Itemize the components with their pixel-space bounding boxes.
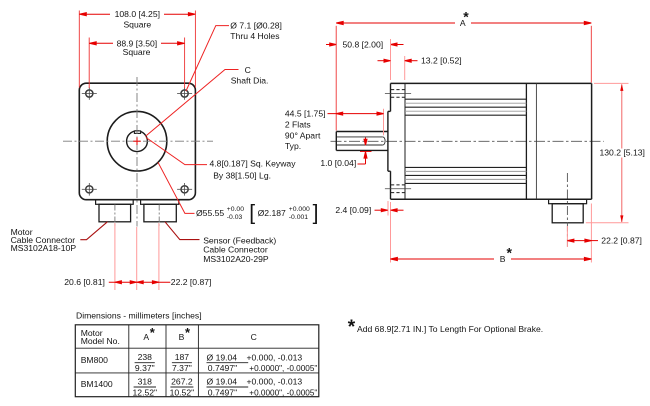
pilot boss (side)	[388, 111, 391, 171]
svg-text:Shaft Dia.: Shaft Dia.	[231, 75, 269, 85]
svg-text:318: 318	[138, 376, 153, 386]
dimension 108.0 line and arrows	[79, 13, 195, 16]
svg-text:+0.0000", -0.0005": +0.0000", -0.0005"	[249, 387, 317, 397]
svg-text:4.8[0.187] Sq. Keyway: 4.8[0.187] Sq. Keyway	[210, 158, 297, 168]
svg-text:*: *	[507, 245, 513, 261]
side view main centerline	[331, 140, 604, 142]
svg-text:MS3102A20-29P: MS3102A20-29P	[203, 254, 269, 264]
svg-text:B: B	[179, 332, 185, 342]
mounting hole bottom-right	[177, 183, 192, 196]
svg-text:Ø 7.1 [Ø0.28]: Ø 7.1 [Ø0.28]	[230, 21, 282, 31]
svg-text:Square: Square	[123, 19, 151, 29]
hole centerline bottom (side)	[385, 188, 411, 190]
rear connector centerline	[566, 173, 568, 247]
hole centerline top (side)	[385, 92, 411, 94]
svg-text:Thru 4 Holes: Thru 4 Holes	[230, 31, 279, 41]
svg-text:C: C	[251, 332, 257, 342]
svg-text:2 Flats: 2 Flats	[285, 120, 311, 130]
svg-text:20.6 [0.81]: 20.6 [0.81]	[64, 277, 105, 287]
pilot dia callout leader	[158, 162, 195, 213]
svg-text:*: *	[348, 317, 356, 338]
svg-text:90° Apart: 90° Apart	[285, 130, 321, 140]
svg-text:B: B	[500, 254, 506, 264]
dimension A extension lines	[336, 26, 591, 131]
svg-text:22.2 [0.87]: 22.2 [0.87]	[171, 277, 212, 287]
svg-text:7.37": 7.37"	[172, 363, 192, 373]
svg-text:13.2 [0.52]: 13.2 [0.52]	[421, 56, 462, 66]
svg-text:0.7497": 0.7497"	[208, 363, 237, 373]
hidden mounting hole bottom (side)	[391, 185, 405, 193]
dimension 44.5 extension line	[383, 109, 385, 136]
svg-text:50.8 [2.00]: 50.8 [2.00]	[343, 40, 384, 50]
dimension A line and arrows	[336, 21, 591, 24]
svg-text:Ø 19.04: Ø 19.04	[207, 376, 238, 386]
svg-text:*: *	[150, 325, 156, 340]
front view vertical centerline	[136, 77, 138, 227]
svg-text:*: *	[185, 325, 191, 340]
side view shaft outline	[336, 132, 388, 151]
dimension 44.5 line and arrows	[328, 112, 384, 115]
svg-text:BM1400: BM1400	[81, 379, 113, 389]
svg-text:187: 187	[175, 352, 190, 362]
motor connector body (left)	[99, 204, 131, 222]
connector centerline left	[114, 205, 116, 226]
flange face extension line	[390, 39, 392, 263]
flange back face	[404, 83, 406, 199]
svg-text:+0.000, -0.013: +0.000, -0.013	[247, 352, 303, 362]
svg-text:2.4 [0.09]: 2.4 [0.09]	[335, 205, 371, 215]
svg-text:12.52": 12.52"	[133, 387, 158, 397]
shaft circle	[127, 131, 148, 152]
svg-text:10.52": 10.52"	[170, 387, 195, 397]
svg-text:108.0 [4.25]: 108.0 [4.25]	[115, 9, 160, 19]
motor connector lip (left)	[96, 200, 134, 205]
connector centerline right	[158, 205, 160, 226]
mounting hole bottom-left	[82, 183, 97, 196]
svg-text:+0.00: +0.00	[227, 206, 244, 213]
svg-text:C: C	[245, 65, 251, 75]
hidden mounting hole top (side)	[391, 90, 405, 98]
svg-text:9.37": 9.37"	[135, 363, 155, 373]
flange front face	[390, 83, 392, 199]
sensor connector body (right)	[144, 204, 176, 222]
dimension 22.2 rear extension line	[566, 226, 568, 247]
svg-text:[: [	[249, 202, 255, 225]
svg-text:Dimensions - millimeters [inch: Dimensions - millimeters [inches]	[76, 310, 202, 320]
sensor connector lip (right)	[141, 200, 179, 205]
motor connector label leader	[80, 222, 107, 240]
svg-text:MS3102A18-10P: MS3102A18-10P	[11, 243, 77, 253]
keyway	[134, 131, 140, 134]
svg-text:Ø2.187: Ø2.187	[258, 208, 286, 218]
dimension 88.9 line and arrows	[89, 42, 184, 45]
sensor connector label leader	[165, 222, 200, 240]
table outer frame	[75, 325, 318, 397]
dimension 2.4 extension line	[387, 201, 389, 216]
shaft dia callout leader	[146, 70, 239, 137]
svg-text:Ø55.55: Ø55.55	[196, 208, 224, 218]
front view horizontal centerline	[63, 140, 213, 142]
svg-text:22.2 [0.87]: 22.2 [0.87]	[601, 236, 642, 246]
keyway callout leader	[146, 138, 207, 165]
rear connector lip (side)	[549, 199, 587, 204]
dimension 130.2 extension lines	[586, 83, 629, 222]
table row lines	[75, 348, 318, 373]
svg-text:]: ]	[313, 202, 319, 225]
dimension B extension line right	[590, 204, 592, 263]
svg-text:Model No.: Model No.	[81, 336, 120, 346]
svg-text:+0.0000", -0.0005": +0.0000", -0.0005"	[249, 363, 317, 373]
fin section end	[525, 83, 527, 199]
svg-text:-0.03: -0.03	[227, 214, 243, 221]
dimension 50.8 line and arrows	[326, 43, 404, 46]
svg-text:267.2: 267.2	[171, 376, 193, 386]
svg-text:44.5 [1.75]: 44.5 [1.75]	[285, 109, 326, 119]
svg-text:*: *	[463, 9, 469, 25]
dimension 22.2 rear line and arrows	[567, 239, 598, 242]
dimension 1.0 flat depth leader	[358, 138, 372, 165]
svg-text:+0.000: +0.000	[289, 206, 310, 213]
svg-text:By 38[1.50] Lg.: By 38[1.50] Lg.	[213, 171, 271, 181]
dimension 20.6 / 22.2 line and arrows	[109, 281, 171, 284]
svg-text:BM800: BM800	[81, 355, 108, 365]
bottom dim extension lines	[115, 223, 159, 290]
svg-text:-0.001: -0.001	[289, 214, 308, 221]
dimension 13.2 extension line	[404, 56, 406, 80]
svg-text:0.7497": 0.7497"	[208, 387, 237, 397]
dimension 2.4 line and arrows	[375, 209, 404, 212]
dimension 13.2 line and arrows	[378, 59, 418, 62]
body bottom edge	[391, 198, 592, 200]
svg-text:1.0 [0.04]: 1.0 [0.04]	[320, 158, 356, 168]
mounting hole top-right	[177, 87, 192, 100]
dimension 130.2 line and arrows	[620, 84, 623, 223]
dimension B line and arrows	[390, 257, 591, 260]
dimension 108.0 extension lines	[79, 11, 195, 88]
svg-text:238: 238	[138, 352, 153, 362]
rear connector body (side)	[552, 204, 583, 223]
front view motor flange outline	[79, 83, 195, 200]
svg-text:+0.000, -0.013: +0.000, -0.013	[247, 376, 303, 386]
cooling fins lower	[405, 167, 526, 183]
rear face	[591, 83, 593, 199]
svg-text:130.2 [5.13]: 130.2 [5.13]	[600, 148, 645, 158]
body ring line	[535, 83, 537, 199]
table column lines	[129, 325, 199, 397]
pilot boss circle	[107, 111, 167, 171]
svg-text:Ø 19.04: Ø 19.04	[207, 352, 238, 362]
center mark red cross	[133, 137, 141, 145]
svg-text:Square: Square	[123, 47, 151, 57]
mounting hole top-left	[82, 87, 97, 100]
svg-text:Typ.: Typ.	[285, 141, 301, 151]
svg-text:A: A	[143, 332, 149, 342]
hole callout leader	[186, 26, 229, 91]
svg-text:Add 68.9[2.71 IN.] To Length F: Add 68.9[2.71 IN.] To Length For Optiona…	[357, 324, 543, 334]
shaft flat lines	[337, 137, 385, 145]
dimension 88.9 extension lines	[89, 38, 184, 89]
cooling fins upper	[405, 99, 526, 115]
body top edge	[391, 82, 592, 84]
